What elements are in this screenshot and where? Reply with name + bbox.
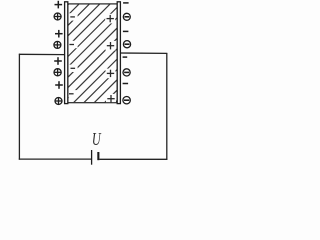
free charge - 3 right	[123, 56, 128, 58]
wire top-right	[119, 52, 168, 54]
free charge + 3 left	[54, 57, 62, 65]
polarization charge + 2	[107, 42, 114, 49]
free charge circled-plus 4 left	[55, 98, 62, 105]
polarization charge - 2	[69, 44, 74, 46]
wire right vertical	[166, 53, 168, 160]
polarization charge + 4	[107, 95, 114, 102]
free charge circled-plus 3 left	[54, 69, 61, 76]
wire bottom-right	[99, 158, 167, 160]
free charge circled-minus 2 right	[123, 41, 130, 48]
free charge - 2 right	[123, 30, 128, 32]
free charge + 2 left	[55, 30, 63, 38]
wire bottom-left	[19, 158, 92, 160]
free charge circled-minus 1 right	[123, 13, 130, 20]
polarization charge halo left 4	[68, 90, 77, 97]
free charge - 1 right	[123, 2, 129, 4]
polarization charge halo right 4	[106, 94, 116, 102]
free charge + 4 left	[55, 81, 63, 89]
polarization charge + 3	[107, 70, 114, 77]
free charge - 4 right	[123, 83, 129, 85]
wire top-left	[19, 53, 65, 55]
polarization charge + 1	[107, 15, 114, 22]
polarization charge halo right 1	[105, 14, 115, 24]
left plate	[65, 2, 68, 104]
free charge + 1 left	[55, 1, 63, 9]
right plate	[117, 2, 120, 104]
hatch	[0, 0, 221, 109]
polarization charge - 1	[70, 16, 75, 18]
polarization charge - 3	[71, 67, 76, 69]
polarization charge halo right 3	[106, 69, 116, 79]
free charge circled-minus 3 right	[123, 69, 130, 76]
polarization charge halo left 2	[68, 41, 77, 48]
polarization charge halo left 1	[68, 13, 77, 20]
battery U1	[92, 150, 100, 165]
wire left vertical	[18, 54, 20, 160]
free charge circled-plus 1 left	[54, 13, 61, 20]
polarization charge - 4	[69, 93, 74, 95]
svg-text:U: U	[92, 130, 102, 150]
free charge circled-plus 2 left	[54, 41, 61, 48]
polarization charge halo right 2	[106, 41, 116, 51]
dielectric slab	[68, 4, 117, 103]
polarization charge halo left 3	[68, 65, 77, 72]
free charge circled-minus 4 right	[123, 97, 130, 104]
